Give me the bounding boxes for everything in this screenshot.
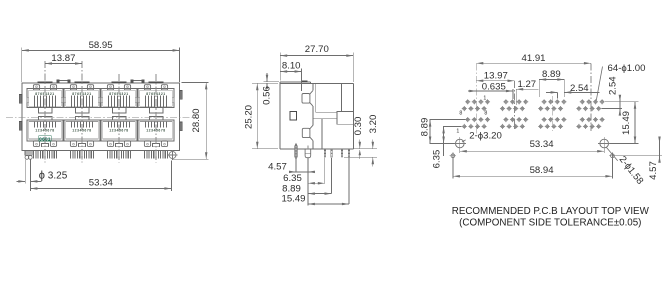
- svg-text:53.34: 53.34: [530, 139, 555, 150]
- PCB pin number labels: [456, 96, 487, 135]
- dim 28.80 overall height: [172, 82, 209, 159]
- dim 13.97: [476, 71, 514, 82]
- side bottom reference lines: [296, 158, 349, 206]
- label 64-phi1.00 with leader: [596, 63, 645, 101]
- dim 53.34 pcb: [460, 139, 604, 153]
- svg-text:6.35: 6.35: [432, 150, 443, 169]
- svg-text:3.25: 3.25: [48, 170, 68, 181]
- dim 41.91: [476, 53, 591, 64]
- side view body outline: [280, 80, 353, 148]
- svg-text:2.54: 2.54: [570, 83, 589, 94]
- RJ45 jack bottom row B2: [64, 117, 100, 147]
- svg-text:4.57: 4.57: [648, 161, 659, 180]
- dim 0.30 and 3.20 pin length: [344, 115, 379, 167]
- side view rear internal lines: [313, 83, 354, 149]
- front view left mounting post (phi3.25): [25, 151, 32, 160]
- PCB holes 2-phi1.58: [450, 153, 616, 160]
- RJ45 jack bottom row B4: [138, 117, 174, 147]
- svg-text:0.56: 0.56: [261, 86, 272, 105]
- svg-text:27.70: 27.70: [305, 44, 329, 55]
- front view right mounting post: [168, 150, 178, 160]
- dim 25.20 height: [244, 83, 279, 149]
- svg-text:8.89: 8.89: [419, 118, 430, 137]
- RJ45 jack top row A4: [138, 85, 174, 113]
- label 2-phi1.58 with leader: [606, 147, 645, 186]
- svg-text:58.94: 58.94: [530, 165, 555, 176]
- dim 4.57 side: [268, 162, 315, 174]
- svg-text:8.89: 8.89: [282, 183, 301, 194]
- PCB mounting holes 2-phi3.20: [453, 137, 610, 150]
- dim 15.49 side: [281, 194, 348, 206]
- side view pins: [295, 143, 350, 159]
- front view centerlines: [6, 61, 197, 163]
- svg-text:1: 1: [483, 96, 486, 102]
- svg-text:15.49: 15.49: [621, 111, 632, 135]
- svg-text:58.95: 58.95: [89, 40, 113, 51]
- dim 6.35 side: [283, 173, 325, 185]
- dim 8.89 top: [539, 69, 564, 97]
- label 2-phi3.20 with leader: [462, 131, 502, 142]
- dim 8.89 left: [419, 118, 465, 144]
- RJ45 jack top row A1: [27, 85, 63, 113]
- svg-text:ϕ: ϕ: [39, 170, 45, 182]
- dim 27.70 depth: [280, 44, 353, 82]
- svg-text:28.80: 28.80: [191, 108, 202, 132]
- svg-text:8: 8: [484, 111, 487, 117]
- svg-text:(COMPONENT SIDE TOLERANCE±0.05: (COMPONENT SIDE TOLERANCE±0.05): [459, 217, 641, 228]
- dim 53.34 post spacing front: [30, 160, 171, 191]
- PCB hole group 2 (16x phi1.00): [500, 99, 528, 129]
- svg-text:64-ϕ1.00: 64-ϕ1.00: [608, 63, 646, 74]
- svg-text:2.54: 2.54: [607, 76, 618, 95]
- svg-text:3.20: 3.20: [368, 115, 379, 134]
- front view top mounting tabs: [38, 80, 164, 84]
- svg-text:15.49: 15.49: [281, 194, 305, 205]
- svg-text:41.91: 41.91: [521, 53, 545, 64]
- svg-text:1.27: 1.27: [517, 79, 536, 90]
- side view front block right edge with latch bumps: [302, 83, 313, 149]
- svg-text:13.87: 13.87: [51, 53, 75, 64]
- svg-text:25.20: 25.20: [244, 105, 255, 129]
- dim 8.89 side: [282, 183, 331, 195]
- dim 58.94 pcb: [453, 158, 613, 178]
- dim 6.35 left: [432, 126, 462, 168]
- dim 4.57 right: [616, 137, 663, 180]
- dim 13.87 jack pitch: [45, 53, 82, 65]
- dim 8.10: [280, 60, 301, 91]
- side view window detail: [290, 111, 297, 120]
- svg-text:13.97: 13.97: [484, 71, 508, 82]
- dim 2.54 vertical right: [602, 76, 622, 116]
- PCB hole group 1 (16x phi1.00): [462, 99, 490, 129]
- svg-text:53.34: 53.34: [89, 177, 114, 188]
- svg-text:8.10: 8.10: [282, 60, 301, 71]
- dim 0.635: [468, 82, 513, 99]
- RJ45 jack top row A2: [64, 85, 100, 113]
- svg-text:8.89: 8.89: [542, 69, 561, 80]
- front view connector body outline: [22, 83, 180, 151]
- PCB group centerlines: [476, 63, 591, 136]
- svg-text:RECOMMENDED P.C.B LAYOUT TOP V: RECOMMENDED P.C.B LAYOUT TOP VIEW: [452, 206, 650, 217]
- RJ45 jack top row A3: [101, 85, 137, 113]
- dim 1.27: [516, 79, 538, 105]
- dim 58.95 overall width: [22, 40, 180, 82]
- PCB hole group 3 (16x phi1.00): [538, 99, 566, 129]
- svg-text:2-ϕ3.20: 2-ϕ3.20: [469, 131, 502, 142]
- PCB hole group 4 (16x phi1.00): [576, 99, 604, 129]
- dim phi3.25 post: [17, 160, 68, 186]
- svg-text:8: 8: [459, 111, 462, 117]
- dim 2.54 top: [546, 83, 600, 99]
- svg-text:0.30: 0.30: [353, 117, 364, 136]
- front view side EMI ears: [19, 90, 182, 130]
- caption text: [452, 206, 650, 228]
- svg-text:4.57: 4.57: [268, 162, 287, 173]
- dim 15.49 right: [605, 102, 638, 144]
- RJ45 jack bottom row B1: [27, 117, 63, 147]
- svg-text:0.635: 0.635: [482, 82, 506, 93]
- RJ45 jack bottom row B3: [101, 117, 137, 147]
- front view solder pins: [34, 151, 168, 159]
- dim 0.56 flange: [261, 73, 279, 105]
- svg-text:1: 1: [456, 129, 459, 135]
